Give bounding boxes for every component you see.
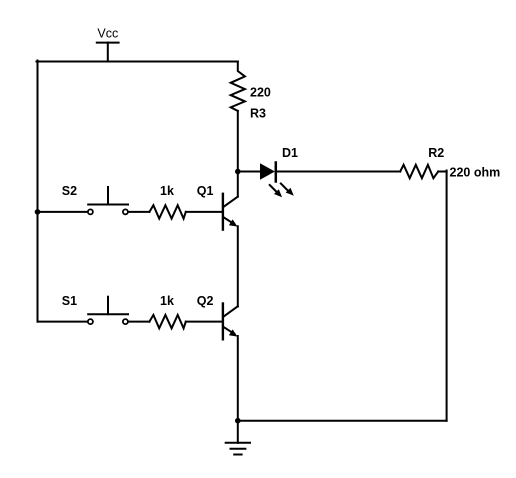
node B junction dot (left rail row 1): [35, 209, 41, 215]
wire S1 to R 1k row2: [128, 321, 149, 323]
resistor R2 220 ohm: [400, 146, 500, 180]
power Vcc: [97, 27, 119, 62]
wire Q1 emitter to Q2 collector: [237, 226, 239, 306]
ground: [226, 421, 250, 455]
wire right rail down: [446, 171, 448, 421]
svg-text:Vcc: Vcc: [97, 27, 118, 41]
node GND junction dot: [235, 418, 241, 424]
wire LED cathode to R2: [276, 171, 400, 173]
resistor 1k row1: [149, 184, 185, 219]
wire bottom rail: [238, 420, 447, 422]
LED D1: [260, 146, 298, 197]
wire left rail corner to S1: [38, 321, 88, 323]
LED light arrow 1: [270, 185, 282, 197]
svg-text:R2: R2: [428, 146, 444, 160]
wire Q2 emitter down to GND node: [237, 336, 239, 421]
wire left rail to S2: [38, 211, 88, 213]
node A junction dot (collector / LED): [235, 169, 241, 175]
transistor Q1: [197, 184, 238, 230]
wire node A to LED anode: [238, 171, 260, 173]
wire R2 to right rail corner: [438, 171, 446, 173]
svg-text:S1: S1: [62, 294, 77, 308]
svg-text:220: 220: [250, 86, 271, 100]
resistor R3 220: [231, 62, 271, 121]
svg-text:Q2: Q2: [197, 294, 214, 308]
svg-text:220 ohm: 220 ohm: [450, 166, 501, 180]
svg-text:R3: R3: [250, 107, 266, 121]
switch S1: [62, 294, 128, 324]
svg-text:S2: S2: [62, 184, 77, 198]
wire S2 to R 1k row1: [128, 211, 149, 213]
svg-text:Q1: Q1: [197, 184, 214, 198]
resistor 1k row2: [149, 294, 185, 329]
wire 1k to Q2 base: [186, 321, 222, 323]
wire top rail Vcc to R3: [37, 61, 238, 63]
wire R3 bottom to node A: [237, 111, 239, 172]
svg-text:1k: 1k: [160, 184, 174, 198]
switch S2: [62, 184, 128, 215]
LED light arrow 2: [281, 184, 294, 196]
wire 1k to Q1 base: [186, 211, 222, 213]
wire left rail: [37, 61, 39, 322]
transistor Q2: [197, 294, 238, 340]
svg-text:D1: D1: [282, 146, 298, 160]
wire Q1 collector up to node A: [237, 172, 239, 197]
svg-text:1k: 1k: [160, 294, 174, 308]
